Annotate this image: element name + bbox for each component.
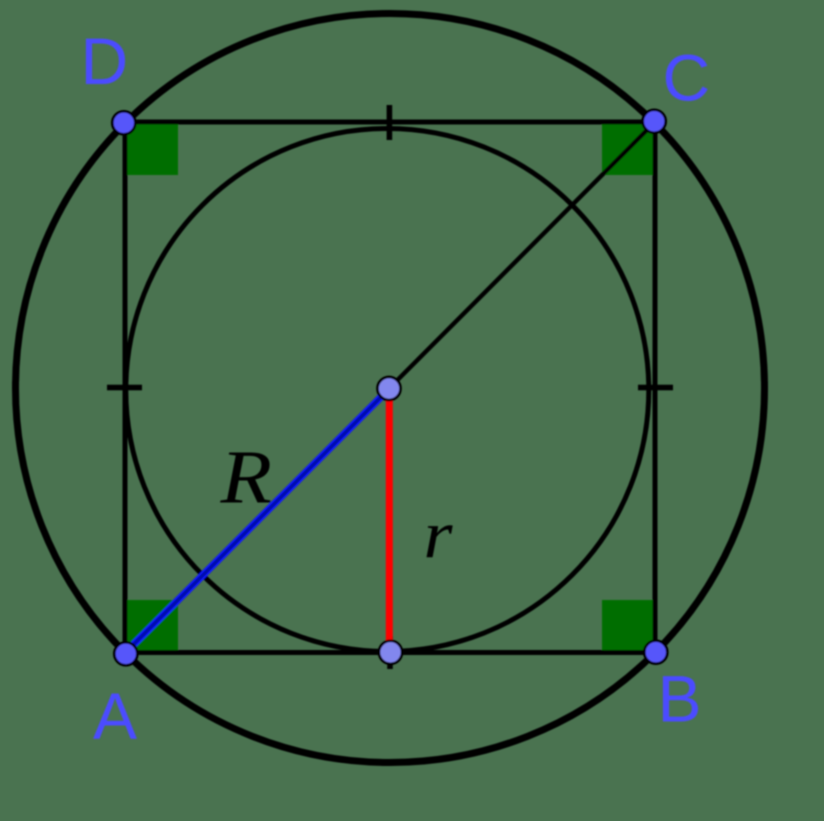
square ABCD [125,122,655,653]
radius R segment (blue) [125,388,390,653]
right-angle marker at C [602,122,655,175]
radius r segment (red) [386,388,393,653]
right-angle marker at D [125,122,178,175]
radius R segment core (diagonal over blue) [125,388,390,653]
diagonal AC [125,122,655,653]
right-angle marker at A [125,600,178,653]
tick mark top side [387,105,393,140]
right-angle marker at B [602,600,655,653]
svg-text:B: B [658,662,702,736]
svg-text:A: A [93,679,137,753]
tangent point bottom [379,641,402,664]
svg-text:R: R [219,436,272,520]
point A [114,642,137,665]
tick mark right side [638,385,673,391]
point C [643,110,666,133]
point D [112,111,135,134]
point B [644,641,667,664]
svg-text:D: D [81,24,129,98]
inscribed circle [126,129,649,652]
tick mark left side [107,385,142,391]
center point [378,377,401,400]
tick mark bottom side [387,636,393,669]
svg-text:C: C [663,41,711,115]
svg-text:r: r [424,497,454,573]
